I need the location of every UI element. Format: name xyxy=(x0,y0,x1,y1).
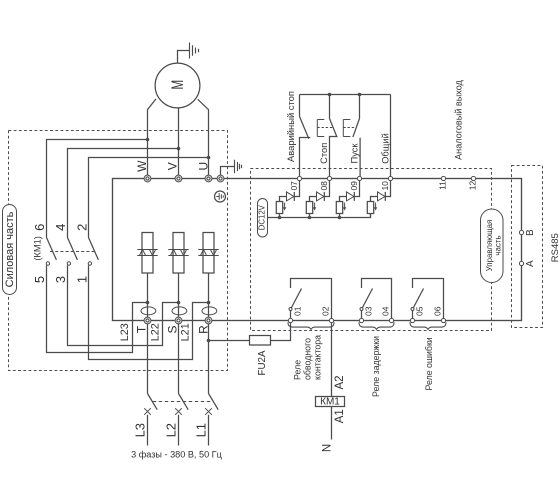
terminal R xyxy=(205,317,212,324)
svg-text:6: 6 xyxy=(32,224,47,231)
terminal W xyxy=(144,175,151,182)
svg-text:Реле: Реле xyxy=(293,360,303,380)
input diode 08 xyxy=(324,181,329,201)
svg-text:A1: A1 xyxy=(334,409,346,423)
wire fuse to terminal 01 xyxy=(271,323,291,340)
svg-text:4: 4 xyxy=(53,224,68,231)
svg-text:FU2A: FU2A xyxy=(257,350,268,376)
terminal 07 xyxy=(297,176,301,180)
svg-text:02: 02 xyxy=(321,306,331,316)
svg-text:U: U xyxy=(196,162,210,171)
wire motor to ground xyxy=(178,51,190,63)
input resistor 10 xyxy=(367,202,373,214)
svg-text:Аналоговый выход: Аналоговый выход xyxy=(454,79,464,159)
svg-text:3 фазы - 380 В, 50 Гц: 3 фазы - 380 В, 50 Гц xyxy=(131,450,222,460)
terminal 12 xyxy=(471,176,475,180)
svg-text:09: 09 xyxy=(349,181,359,191)
svg-text:W: W xyxy=(135,160,149,172)
contactor KM1 pole 3 contact xyxy=(89,238,99,260)
svg-text:07: 07 xyxy=(289,181,299,191)
svg-text:L3: L3 xyxy=(133,423,148,437)
RS485 dashed box xyxy=(512,166,543,328)
current transformer phase 2 xyxy=(172,307,187,315)
wire L1 to terminal xyxy=(208,324,210,394)
terminal group brace 01-02 xyxy=(288,322,334,329)
terminal U xyxy=(205,175,212,182)
input arrow 07 xyxy=(284,203,286,208)
wire R to fuse xyxy=(209,340,250,342)
svg-text:V: V xyxy=(166,162,180,170)
motor M xyxy=(155,63,200,108)
button Пуск (NO) xyxy=(359,95,361,119)
relay contact 03-04 xyxy=(362,279,392,319)
wire motor V phase xyxy=(178,108,180,177)
svg-text:3: 3 xyxy=(53,276,68,283)
wire PE to ground xyxy=(221,167,235,176)
terminal 01 xyxy=(288,318,292,322)
fuse FU2A xyxy=(250,336,271,346)
svg-text:Стоп: Стоп xyxy=(319,143,329,164)
svg-text:11: 11 xyxy=(437,181,447,190)
current transformer phase 1 xyxy=(141,307,156,315)
wire SCR2 to terminal xyxy=(178,273,180,318)
wire L3 to terminal xyxy=(147,324,149,394)
power section dashed box (Силовая часть) xyxy=(9,131,228,371)
DC12V rail xyxy=(268,214,371,218)
soft starter device box xyxy=(113,179,522,321)
svg-text:Пуск: Пуск xyxy=(350,143,360,164)
svg-text:(КМ1): (КМ1) xyxy=(32,236,42,261)
svg-text:Управляющая: Управляющая xyxy=(485,220,494,272)
terminal 05 xyxy=(410,318,414,322)
contactor KM1 pole 2 contact xyxy=(68,238,78,260)
input diode 10 xyxy=(385,181,390,201)
svg-text:08: 08 xyxy=(319,181,329,191)
input diode 07 xyxy=(294,181,299,201)
input arrow 09 xyxy=(344,203,346,208)
button Стоп (NC) xyxy=(329,95,331,119)
terminal 06 xyxy=(441,318,445,322)
wire bypass 3 to S xyxy=(68,265,179,345)
svg-text:обводного: обводного xyxy=(302,338,312,380)
input diode 09 xyxy=(354,181,359,201)
terminal V xyxy=(175,175,182,182)
DC12V source xyxy=(258,199,268,238)
thyristor block phase 3 xyxy=(203,233,214,274)
svg-text:L23: L23 xyxy=(119,323,131,341)
relay contact 05-06 xyxy=(413,279,444,319)
wire bypass 4 to V xyxy=(68,149,179,238)
terminal PE xyxy=(217,175,224,182)
wire bypass 2 to U xyxy=(89,158,209,238)
wire Общий to 10 xyxy=(390,95,392,177)
svg-text:05: 05 xyxy=(414,306,424,316)
terminal T xyxy=(144,317,151,324)
wire bypass 5 to T xyxy=(47,265,148,352)
contactor coil KM1 xyxy=(316,397,345,407)
label Силовая часть xyxy=(3,205,17,295)
svg-text:B: B xyxy=(525,229,536,236)
input arrow 08 xyxy=(314,203,316,208)
terminal 03 xyxy=(359,318,363,322)
svg-text:часть: часть xyxy=(494,235,503,255)
svg-text:A2: A2 xyxy=(334,375,346,389)
svg-text:Силовая часть: Силовая часть xyxy=(4,211,16,287)
wire motor U phase xyxy=(198,99,209,176)
svg-text:DC12V: DC12V xyxy=(258,204,267,230)
svg-text:Реле задержки: Реле задержки xyxy=(371,336,381,397)
thyristor block phase 2 xyxy=(173,233,184,274)
input resistor 08 xyxy=(306,202,312,214)
wire bypass 1 to R xyxy=(89,265,209,359)
svg-text:L22: L22 xyxy=(149,323,161,341)
junction input 08 xyxy=(308,216,312,220)
terminal 11 xyxy=(441,176,445,180)
svg-text:M: M xyxy=(169,80,187,90)
svg-text:Реле ошибки: Реле ошибки xyxy=(424,337,434,390)
terminal 10 xyxy=(388,176,392,180)
svg-text:12: 12 xyxy=(468,181,478,191)
svg-text:Аварийный стоп: Аварийный стоп xyxy=(285,91,296,162)
disconnect switch pole L3 xyxy=(148,394,158,410)
svg-text:04: 04 xyxy=(381,306,391,316)
contactor KM1 pole 1 contact xyxy=(47,238,57,260)
disconnect switch pole L1 xyxy=(209,394,219,410)
svg-text:S: S xyxy=(166,325,180,333)
svg-text:2: 2 xyxy=(75,224,90,231)
wire SCR1 to terminal xyxy=(147,273,149,318)
svg-text:L21: L21 xyxy=(180,323,192,341)
terminal B xyxy=(519,230,523,234)
input resistor 07 xyxy=(276,202,282,214)
svg-text:5: 5 xyxy=(32,276,47,283)
svg-text:10: 10 xyxy=(380,181,390,191)
terminal A xyxy=(519,261,523,265)
thyristor block phase 1 xyxy=(142,233,153,274)
svg-text:03: 03 xyxy=(363,306,373,316)
wire KM1 coil to N xyxy=(331,407,333,440)
relay contact 01-02 xyxy=(291,279,332,319)
wire L2 to terminal xyxy=(178,324,180,394)
wire SCR3 to terminal xyxy=(208,273,210,318)
wire bypass 6 to W xyxy=(47,140,148,238)
terminal S xyxy=(175,317,182,324)
KM1 poles linkage dashed xyxy=(50,251,95,253)
terminal 08 xyxy=(327,176,331,180)
PE earth symbol xyxy=(215,191,226,202)
svg-text:RS485: RS485 xyxy=(550,233,560,262)
junction input 09 xyxy=(338,216,342,220)
terminal 02 xyxy=(329,318,333,322)
svg-text:L1: L1 xyxy=(194,423,209,437)
ground (PE) xyxy=(235,160,242,173)
svg-text:06: 06 xyxy=(433,306,443,316)
label Управляющая часть xyxy=(481,209,504,283)
svg-text:01: 01 xyxy=(292,306,302,316)
ground (motor) xyxy=(190,43,199,59)
junction input 07 xyxy=(278,216,282,220)
breaker linkage dashed xyxy=(153,401,212,403)
svg-text:N: N xyxy=(322,444,334,452)
input arrow 10 xyxy=(375,203,377,208)
wire motor W phase xyxy=(148,99,157,176)
svg-text:КМ1: КМ1 xyxy=(320,396,340,407)
svg-text:A: A xyxy=(525,260,536,267)
terminal 09 xyxy=(357,176,361,180)
input resistor 09 xyxy=(336,202,342,214)
wire 02 to KM1 coil xyxy=(331,323,333,396)
terminal group brace 05-06 xyxy=(410,322,446,329)
disconnect switch pole L2 xyxy=(179,394,189,410)
svg-text:T: T xyxy=(135,325,149,333)
switch Аварийный стоп (NC) xyxy=(299,95,301,117)
svg-text:L2: L2 xyxy=(164,423,179,437)
svg-text:1: 1 xyxy=(75,276,90,283)
current transformer phase 3 xyxy=(202,307,217,315)
terminal group brace 03-04 xyxy=(359,322,394,329)
terminal 04 xyxy=(389,318,393,322)
svg-text:Общий: Общий xyxy=(380,133,390,164)
control section dashed box (Управляющая часть) xyxy=(251,169,492,331)
common wire (Общий) xyxy=(300,94,391,96)
svg-text:контактора: контактора xyxy=(312,335,322,380)
